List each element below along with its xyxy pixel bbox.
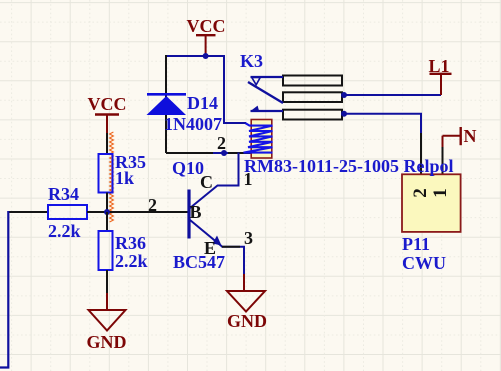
resistor value 1k: [115, 169, 134, 187]
transistor Q10 base bar: [187, 190, 190, 239]
wire R35 bottom to junction: [106, 193, 108, 213]
pin label B (base): [190, 203, 202, 221]
relay K3 coil winding: [244, 123, 273, 152]
power port label N: [464, 127, 477, 145]
pin number 1 (Q10 collector): [244, 170, 253, 188]
connector value CWU: [402, 254, 446, 272]
resistor R36 body: [99, 231, 113, 270]
connector P11 body: [402, 174, 461, 232]
diode designator D14: [187, 94, 218, 112]
relay K3 NO lead: [251, 110, 284, 112]
relay K3 pivot triangle: [252, 78, 260, 85]
relay K3 common lead: [251, 76, 284, 78]
relay designator K3: [240, 52, 263, 70]
ground symbol GND right: [227, 274, 265, 312]
transistor Q10 collector: [190, 153, 239, 209]
pin number 2 (Q10 base): [148, 196, 157, 214]
diode value 1N4007: [164, 115, 222, 133]
node junction bottom wire: [221, 150, 227, 156]
wire segment junction area: [213, 152, 228, 154]
connector designator P11: [402, 235, 430, 253]
relay value RM83-1011-25-1005 Relpol: [244, 157, 453, 175]
power port label VCC top: [187, 17, 226, 35]
relay K3 moving arm: [248, 82, 283, 103]
node junction at NO contact: [341, 111, 347, 117]
wire bottom of loop to coil bottom pin: [166, 152, 213, 154]
resistor R34 body: [48, 205, 87, 219]
pin number 3 (Q10 emitter): [244, 229, 253, 247]
wire left side of loop (through D14): [165, 55, 167, 153]
relay K3 coil body: [251, 120, 272, 159]
ground label GND left: [87, 333, 127, 351]
ERC squiggle marker: [110, 132, 114, 222]
pin number 2 (coil): [217, 134, 226, 152]
power port label L1: [429, 57, 450, 75]
pin 2 lead of P11: [420, 133, 422, 174]
pin label E (emitter): [204, 239, 216, 257]
node junction R34/R35/R36: [104, 209, 110, 215]
relay K3 contact bar NO: [283, 110, 342, 120]
relay K3 arrow mark: [251, 106, 259, 111]
diode D14: [147, 94, 187, 115]
relay K3 contact bar NC: [283, 76, 342, 86]
resistor designator R35: [115, 153, 146, 171]
ground label GND right: [227, 312, 267, 330]
transistor designator Q10: [172, 159, 204, 177]
wire R36 bottom to GND: [106, 270, 108, 295]
pin label C (collector): [200, 173, 213, 191]
resistor designator R36: [115, 234, 146, 252]
node junction at contact: [341, 92, 347, 98]
wire junction to Q10 base: [107, 211, 188, 213]
power port label VCC left: [88, 95, 127, 113]
ground symbol GND left: [89, 293, 126, 331]
pin 1 lead of P11: [442, 147, 444, 174]
wire to coil bottom pin: [228, 152, 251, 154]
wire emitter to GND: [222, 247, 245, 276]
relay K3 contact bar common: [283, 92, 342, 102]
wire VCC top rail (top of D14 loop): [165, 55, 225, 57]
wire right side of loop down to relay coil pin: [224, 56, 246, 123]
pin number 2 of P11 (rotated): [412, 184, 430, 202]
pin number 1 of P11 (rotated): [432, 184, 450, 202]
power port L1: [430, 74, 452, 95]
transistor Q10 emitter with arrow: [190, 220, 222, 247]
wire VCC left to R35: [106, 133, 108, 154]
wire down left edge: [0, 211, 8, 368]
node junction at VCC top: [203, 53, 209, 59]
wire contact common to L1: [343, 94, 441, 96]
resistor value 2.2k: [48, 222, 81, 240]
resistor value 2.2k: [115, 252, 148, 270]
wire R34 right to junction: [87, 211, 107, 213]
power port VCC left stub: [95, 115, 119, 134]
wire contact NO to P11 pin 2: [343, 114, 421, 133]
power port VCC top stub: [196, 35, 216, 56]
resistor designator R34: [48, 185, 79, 203]
wire emitter stub black: [222, 246, 240, 248]
wire R34 left lead: [8, 211, 48, 213]
resistor R35 body: [99, 154, 113, 193]
power port N: [443, 127, 461, 148]
transistor value BC547: [173, 253, 225, 271]
wire junction down to R36: [106, 212, 108, 231]
